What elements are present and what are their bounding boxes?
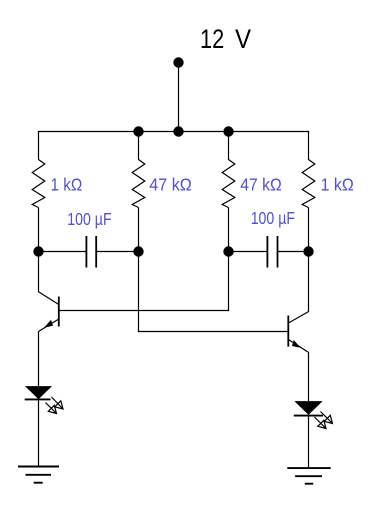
wire LED1 to ground [38,399,40,467]
resistor R2 body [132,160,145,208]
resistor R3 body [222,160,235,208]
LED D1 cathode bar [25,398,51,400]
ground (right) [287,468,330,484]
wire +12V rail [38,131,309,133]
transistor Q2 collector lead [288,312,308,324]
wire rail to R1 [38,132,40,161]
label 12 V [200,24,251,54]
svg-text:1 kΩ: 1 kΩ [51,175,83,195]
junction rail-supply [173,126,183,136]
junction rail-R3 [223,126,233,136]
ground (left) [18,467,59,483]
wire node B to Q2 base corner [138,252,140,332]
svg-text:47 kΩ: 47 kΩ [240,175,281,195]
capacitor C2 plates [267,236,277,268]
wire supply terminal to rail [178,63,180,132]
transistor Q1 emitter arrow [44,320,53,328]
node C junction [223,246,233,256]
LED D1 body [26,387,51,399]
wire Q2 base line [138,331,288,333]
resistor R4 body [302,160,315,208]
svg-text:12: 12 [200,24,224,54]
svg-text:100 µF: 100 µF [67,209,111,229]
transistor Q2 emitter arrow [292,340,301,348]
wire Q1 emitter to LED1 [38,331,40,387]
LED D2 emission arrow 1 [321,412,333,424]
transistor Q2 base bar [287,316,289,347]
resistor R1 body [32,160,45,208]
node D junction [303,246,313,256]
transistor Q1 emitter lead [39,319,59,331]
node B junction [133,246,143,256]
wire node C to C2 [229,251,268,253]
wire Q1 base line [59,310,229,312]
power supply terminal node [173,57,183,67]
LED D2 cathode bar [294,415,323,417]
LED D1 emission arrow 2 [46,403,57,414]
transistor Q1 collector lead [39,292,59,305]
svg-text:100 µF: 100 µF [251,208,295,228]
wire rail to R2 [138,132,140,161]
transistor Q1 base bar [58,297,60,327]
svg-text:47 kΩ: 47 kΩ [149,175,192,195]
capacitor C1 plates [86,236,96,268]
junction rail-R2 [133,126,143,136]
wire C2 to node D [278,251,309,253]
transistor Q2 emitter lead [288,340,308,353]
wire R2 to node B [138,208,140,252]
wire C1 to node B [96,251,138,253]
wire R1 to node A [38,208,40,252]
wire rail to R3 [228,132,230,161]
svg-text:1 kΩ: 1 kΩ [321,175,354,195]
wire R4 to node D [308,208,310,252]
wire rail to R4 [308,132,310,161]
wire R3 to node C [228,208,230,252]
node A junction [33,246,43,256]
wire node C to Q1 base [228,252,230,312]
wire LED2 to ground [308,416,310,468]
wire node A to C1 [39,251,87,253]
wire node D to Q2 collector [308,252,310,312]
wire node A to Q1 collector [38,252,40,293]
LED D2 emission arrow 2 [315,417,327,429]
wire Q2 emitter to LED2 [308,352,310,402]
LED D2 body [296,402,322,415]
svg-text:V: V [235,24,251,54]
LED D1 emission arrow 1 [52,397,64,409]
